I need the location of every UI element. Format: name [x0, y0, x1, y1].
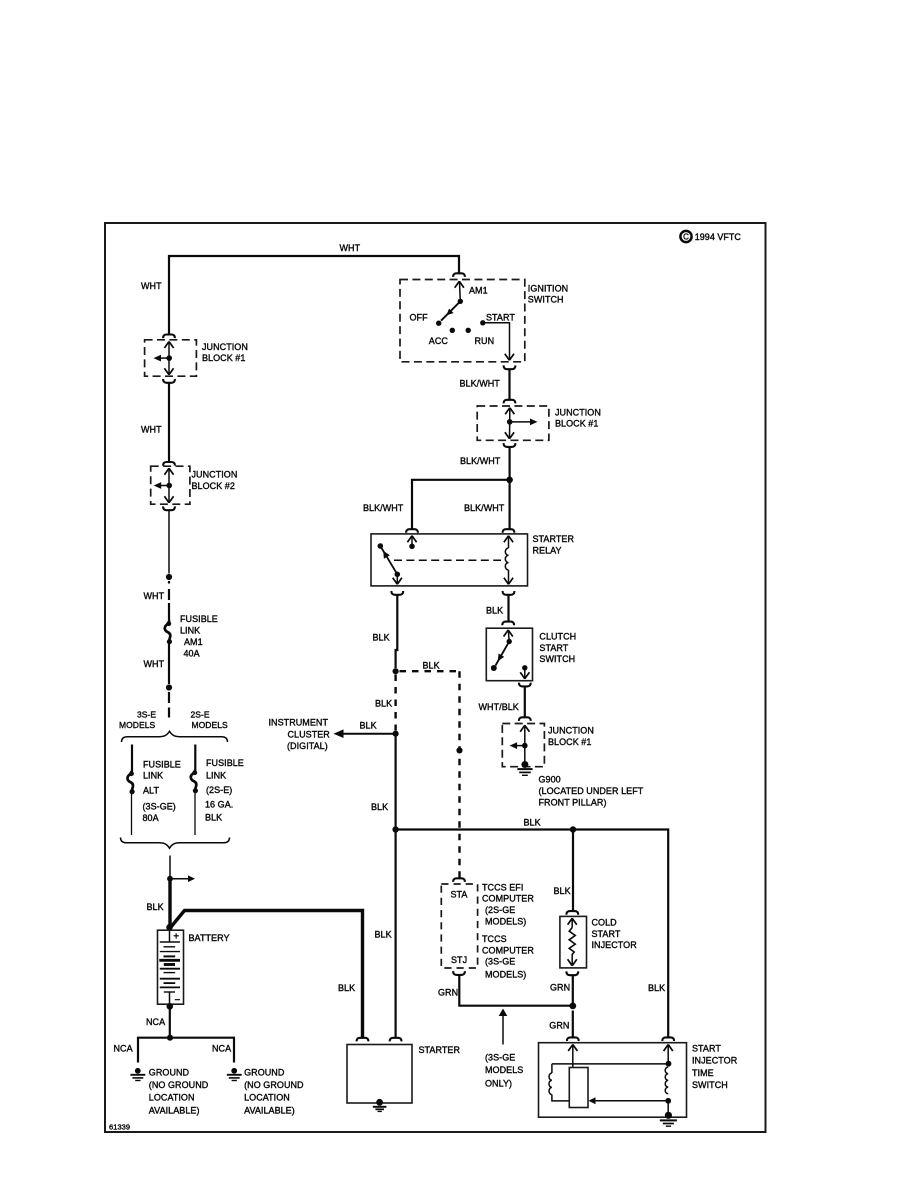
junction block 1 (lower, ground)	[502, 724, 544, 769]
wire GRN injector to node	[572, 975, 574, 1003]
connector into starter relay (switch side)	[406, 529, 418, 533]
wire dashed segment above fusible link AM1	[168, 581, 170, 621]
svg-text:(3S-GE: (3S-GE	[485, 1052, 515, 1062]
svg-text:LOCATION: LOCATION	[149, 1092, 195, 1102]
svg-text:ONLY): ONLY)	[485, 1078, 512, 1088]
fusible link (2S-E)	[191, 770, 198, 794]
wire right model branch (lower, thin)	[194, 792, 196, 835]
connector into time switch right	[662, 1037, 674, 1041]
svg-text:GRN: GRN	[549, 1020, 569, 1030]
wire WHT below fusible link	[168, 643, 170, 684]
svg-text:BLK: BLK	[524, 817, 541, 827]
svg-text:BLK: BLK	[375, 929, 392, 939]
svg-text:BLOCK #1: BLOCK #1	[555, 419, 598, 429]
svg-text:16 GA.: 16 GA.	[205, 800, 233, 810]
ignition switch S1	[400, 280, 525, 362]
starter relay	[371, 534, 528, 586]
svg-text:START: START	[539, 643, 568, 653]
connector below junction block 1	[163, 379, 175, 383]
wire WHT/BLK clutch switch to junction block	[524, 687, 526, 718]
svg-text:BLK: BLK	[486, 606, 503, 616]
wire BLK to cold start injector	[572, 830, 574, 912]
connector into starter relay (coil side)	[503, 529, 515, 533]
svg-text:BLK: BLK	[554, 886, 571, 896]
svg-text:AVAILABLE): AVAILABLE)	[244, 1105, 295, 1115]
svg-text:START: START	[592, 929, 621, 939]
svg-text:BATTERY: BATTERY	[189, 933, 230, 943]
svg-text:FUSIBLE: FUSIBLE	[206, 758, 244, 768]
svg-text:61339: 61339	[109, 1123, 130, 1132]
svg-text:FUSIBLE: FUSIBLE	[143, 760, 181, 770]
connector into junction block 1 lower	[519, 717, 531, 721]
svg-text:ACC: ACC	[429, 336, 449, 346]
wire left model branch (lower, thin)	[131, 793, 133, 835]
svg-text:BLK: BLK	[371, 802, 388, 812]
junction dot dashed branch	[393, 668, 399, 674]
svg-text:COLD: COLD	[592, 918, 618, 928]
clutch start switch	[486, 628, 532, 681]
connector into ignition switch	[453, 273, 465, 277]
svg-text:GROUND: GROUND	[149, 1068, 190, 1078]
svg-text:WHT/BLK: WHT/BLK	[479, 702, 519, 712]
svg-text:WHT: WHT	[340, 243, 361, 253]
svg-text:WHT: WHT	[144, 591, 165, 601]
wire BLK/WHT branch to relay switch side	[412, 480, 510, 530]
svg-text:(DIGITAL): (DIGITAL)	[287, 741, 328, 751]
wire BLK dashed branch vertical to TCCS	[458, 671, 460, 877]
svg-text:(3S-GE): (3S-GE)	[143, 802, 176, 812]
svg-text:WHT: WHT	[141, 281, 162, 291]
connector into time switch left	[567, 1037, 579, 1041]
connector into junction block 2	[163, 462, 175, 466]
wire WHT below junction block 2	[168, 510, 170, 573]
svg-text:STARTER: STARTER	[419, 1045, 461, 1055]
svg-text:SWITCH: SWITCH	[528, 295, 564, 305]
junction dot on dashed wire	[456, 747, 462, 753]
connector below clutch start switch	[519, 683, 531, 687]
svg-text:BLK: BLK	[648, 983, 665, 993]
svg-text:START: START	[692, 1043, 721, 1053]
junction dot NCA split	[167, 1035, 173, 1041]
svg-text:BLOCK #2: BLOCK #2	[192, 481, 235, 491]
svg-text:(2S-GE: (2S-GE	[485, 905, 515, 915]
wire GRN from STJ	[459, 975, 571, 1006]
svg-text:(NO GROUND: (NO GROUND	[149, 1080, 209, 1090]
junction dot GRN node	[569, 1003, 576, 1010]
wire BLK/WHT junction block to relay node	[509, 447, 511, 480]
svg-text:START: START	[486, 312, 515, 322]
svg-text:LOCATION: LOCATION	[244, 1092, 290, 1102]
wire BLK to battery positive	[168, 879, 171, 926]
fusible link AM1	[165, 621, 172, 645]
svg-text:WHT: WHT	[141, 425, 162, 435]
connector starter relay wire	[390, 1038, 402, 1042]
svg-text:BLK: BLK	[423, 660, 440, 670]
wire BLK dashed segment below branch dot	[394, 675, 396, 731]
svg-text:MODELS: MODELS	[119, 720, 155, 730]
svg-text:RELAY: RELAY	[533, 546, 562, 556]
svg-text:AVAILABLE): AVAILABLE)	[149, 1105, 200, 1115]
svg-text:TCCS EFI: TCCS EFI	[482, 882, 523, 892]
svg-text:−: −	[175, 995, 181, 1006]
fusible link ALT	[127, 771, 134, 795]
svg-text:LINK: LINK	[180, 625, 200, 635]
wire BLK dashed branch horizontal	[400, 670, 460, 672]
svg-text:STJ: STJ	[451, 955, 467, 965]
svg-text:2S-E: 2S-E	[191, 710, 210, 720]
svg-text:BLK/WHT: BLK/WHT	[460, 456, 501, 466]
svg-text:BLK: BLK	[373, 633, 390, 643]
junction dot battery feed	[167, 876, 173, 882]
starter M1	[347, 1045, 412, 1104]
svg-text:MODELS: MODELS	[192, 720, 228, 730]
junction block 2	[151, 466, 190, 504]
wire dashed segment below dot	[168, 692, 170, 718]
connector below cold start injector	[566, 971, 578, 975]
svg-text:BLK: BLK	[360, 720, 377, 730]
wire arrow to instrument cluster	[340, 733, 396, 735]
svg-text:(3S-GE: (3S-GE	[485, 957, 515, 967]
wire BLK/WHT ignition to junction block	[508, 369, 510, 400]
svg-text:INJECTOR: INJECTOR	[692, 1056, 738, 1066]
svg-text:BLK/WHT: BLK/WHT	[363, 503, 404, 513]
svg-text:COMPUTER: COMPUTER	[482, 945, 534, 955]
svg-text:CLUTCH: CLUTCH	[539, 632, 576, 642]
diagram border frame	[105, 223, 766, 1132]
wire from models group to battery	[169, 856, 171, 880]
svg-text:40A: 40A	[184, 648, 200, 658]
brace top (models group)	[122, 731, 228, 742]
connector below relay coil side	[503, 591, 515, 595]
wire WHT between junction blocks	[168, 383, 170, 462]
junction block 1 (left)	[145, 340, 197, 376]
connector starter cable	[357, 1038, 369, 1042]
svg-text:(NO GROUND: (NO GROUND	[244, 1080, 304, 1090]
battery positive terminal dot	[166, 924, 173, 931]
ground G900	[517, 769, 532, 775]
connector below TCCS	[453, 971, 465, 975]
svg-text:SWITCH: SWITCH	[539, 654, 575, 664]
svg-text:GROUND: GROUND	[244, 1068, 285, 1078]
svg-text:(LOCATED UNDER LEFT: (LOCATED UNDER LEFT	[539, 786, 644, 796]
svg-text:BLOCK #1: BLOCK #1	[202, 353, 245, 363]
cold start injector	[560, 916, 587, 968]
connector into cold start injector	[566, 911, 578, 915]
svg-text:BLK/WHT: BLK/WHT	[464, 503, 505, 513]
svg-text:TCCS: TCCS	[482, 934, 507, 944]
connector below junction block 1 right	[504, 443, 516, 447]
svg-text:+: +	[173, 932, 179, 943]
wire WHT left vertical to junction block 1	[168, 257, 170, 335]
junction dot instrument cluster branch	[393, 731, 399, 737]
wire NCA battery negative	[169, 1006, 171, 1037]
wire BLK relay coil to clutch start switch	[507, 595, 509, 622]
connector into clutch start switch	[502, 622, 514, 626]
wire right model branch (upper)	[194, 745, 196, 771]
svg-text:TIME: TIME	[692, 1068, 714, 1078]
svg-text:(2S-E): (2S-E)	[206, 785, 232, 795]
connector into junction block 1 right	[504, 400, 516, 404]
battery B1	[158, 930, 184, 1006]
svg-text:WHT: WHT	[144, 659, 165, 669]
svg-text:NCA: NCA	[146, 1017, 165, 1027]
svg-text:JUNCTION: JUNCTION	[555, 407, 601, 417]
svg-text:BLK: BLK	[205, 812, 222, 822]
svg-text:STARTER: STARTER	[533, 534, 575, 544]
svg-text:SWITCH: SWITCH	[692, 1080, 728, 1090]
TCCS computer connector	[441, 884, 477, 968]
branch arrow right (to other circuits)	[170, 878, 190, 880]
svg-text:MODELS: MODELS	[485, 1065, 523, 1075]
svg-text:GRN: GRN	[550, 982, 570, 992]
svg-text:AM1: AM1	[184, 637, 203, 647]
wire WHT top horizontal	[169, 256, 459, 274]
wire BLK relay switch output down	[396, 595, 398, 668]
svg-text:OFF: OFF	[410, 312, 429, 322]
svg-text:STA: STA	[451, 889, 468, 899]
start injector time switch	[539, 1043, 687, 1118]
ground left (battery)	[130, 1068, 145, 1081]
connector below junction block 2	[163, 506, 175, 510]
svg-text:NCA: NCA	[212, 1043, 231, 1053]
junction dot BLK/WHT split	[506, 477, 513, 484]
svg-text:LINK: LINK	[206, 770, 226, 780]
svg-text:AM1: AM1	[469, 285, 488, 295]
svg-text:80A: 80A	[143, 813, 159, 823]
wire BLK solid down to bus	[395, 734, 397, 830]
svg-text:COMPUTER: COMPUTER	[482, 894, 534, 904]
svg-text:MODELS): MODELS)	[485, 970, 526, 980]
connector into TCCS	[453, 878, 465, 882]
svg-text:MODELS): MODELS)	[485, 916, 526, 926]
svg-text:FUSIBLE: FUSIBLE	[180, 614, 218, 624]
svg-text:JUNCTION: JUNCTION	[202, 342, 248, 352]
svg-text:IGNITION: IGNITION	[528, 283, 568, 293]
ground right (battery)	[227, 1068, 242, 1081]
connector into junction block 1	[163, 335, 175, 339]
svg-text:ALT: ALT	[143, 786, 159, 796]
ground (starter)	[373, 1099, 387, 1112]
wire BLK/WHT to relay coil side	[509, 480, 511, 530]
pointer arrow (3S-GE note)	[502, 1013, 504, 1045]
battery negative terminal dot	[167, 1003, 174, 1010]
battery cable to starter (thick)	[171, 911, 363, 1039]
svg-text:INJECTOR: INJECTOR	[592, 940, 638, 950]
svg-text:3S-E: 3S-E	[137, 710, 156, 720]
svg-text:INSTRUMENT: INSTRUMENT	[269, 718, 329, 728]
svg-text:RUN: RUN	[475, 336, 495, 346]
junction dot above models split	[166, 684, 172, 690]
svg-text:G900: G900	[539, 774, 561, 784]
svg-text:BLK: BLK	[375, 699, 392, 709]
wire GRN node to time switch	[572, 1011, 574, 1038]
svg-text:CLUSTER: CLUSTER	[288, 729, 331, 739]
junction dot on WHT wire	[166, 574, 172, 580]
wire left model branch (upper)	[131, 745, 133, 772]
connector below ignition switch	[504, 365, 516, 369]
wire BLK horizontal bus	[396, 830, 669, 1038]
junction block 1 (right)	[477, 406, 549, 440]
wire NCA split to grounds	[138, 1038, 234, 1063]
junction dot bus at cold start injector	[570, 826, 576, 832]
svg-text:1994 VFTC: 1994 VFTC	[695, 232, 742, 242]
svg-text:C: C	[683, 233, 689, 242]
svg-text:BLK: BLK	[147, 902, 164, 912]
svg-text:JUNCTION: JUNCTION	[192, 470, 238, 480]
svg-text:JUNCTION: JUNCTION	[548, 726, 594, 736]
svg-text:LINK: LINK	[143, 770, 163, 780]
svg-text:BLK: BLK	[338, 983, 355, 993]
svg-text:FRONT PILLAR): FRONT PILLAR)	[539, 797, 607, 807]
svg-text:NCA: NCA	[114, 1043, 133, 1053]
wire BLK starter branch	[395, 830, 397, 1039]
connector below relay switch side	[391, 591, 403, 595]
svg-text:GRN: GRN	[438, 988, 458, 998]
ground (time switch)	[660, 1112, 677, 1126]
copyright logo	[680, 231, 691, 242]
svg-text:BLOCK #1: BLOCK #1	[548, 737, 591, 747]
junction dot bus left	[392, 826, 398, 832]
brace bottom (models group)	[121, 838, 230, 849]
svg-text:BLK/WHT: BLK/WHT	[460, 379, 501, 389]
